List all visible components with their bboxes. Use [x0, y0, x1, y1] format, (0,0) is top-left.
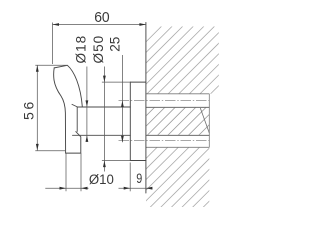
svg-text:56: 56 [21, 99, 37, 120]
svg-text:9: 9 [136, 171, 142, 186]
svg-text:25: 25 [108, 37, 123, 52]
svg-text:Ø10: Ø10 [89, 172, 114, 188]
svg-text:60: 60 [94, 10, 110, 26]
svg-text:Ø18: Ø18 [73, 35, 88, 64]
svg-text:Ø50: Ø50 [91, 35, 106, 64]
